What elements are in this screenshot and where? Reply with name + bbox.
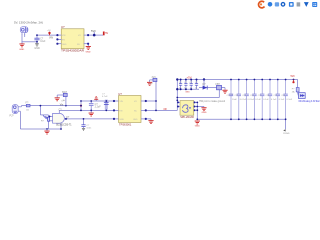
svg-text:VIN: VIN <box>62 35 66 37</box>
svg-text:SI2301CDS-T1: SI2301CDS-T1 <box>56 125 72 127</box>
svg-text:TPS5430DDAR: TPS5430DDAR <box>61 49 84 52</box>
svg-text:GND: GND <box>202 112 207 114</box>
svg-text:5V: 5V <box>105 32 108 35</box>
svg-text:4.7uF: 4.7uF <box>102 96 108 98</box>
svg-text:5V: 5V <box>150 83 153 85</box>
svg-text:FB?: FB? <box>216 83 221 86</box>
svg-text:0.1uF: 0.1uF <box>287 99 293 101</box>
svg-text:5V, 1300-2A (Max. 2A): 5V, 1300-2A (Max. 2A) <box>14 21 43 25</box>
svg-text:C28: C28 <box>281 95 284 97</box>
svg-text:PGND: PGND <box>283 133 290 135</box>
svg-text:C24: C24 <box>250 95 253 97</box>
svg-text:R?: R? <box>41 121 45 123</box>
svg-text:GND: GND <box>34 47 40 50</box>
svg-text:0.01uF: 0.01uF <box>240 99 247 101</box>
svg-text:1A: 1A <box>26 108 29 111</box>
svg-text:0.1uF: 0.1uF <box>263 99 269 101</box>
svg-text:PJ?: PJ? <box>10 115 15 118</box>
svg-text:GND: GND <box>133 119 138 121</box>
svg-text:0.1uF: 0.1uF <box>279 99 285 101</box>
svg-text:0R: 0R <box>164 108 167 111</box>
svg-text:3V3: 3V3 <box>152 77 157 79</box>
svg-text:VIN: VIN <box>49 37 53 40</box>
svg-text:C22: C22 <box>234 95 237 97</box>
svg-text:2.2uF: 2.2uF <box>95 106 102 109</box>
svg-text:2A: 2A <box>292 90 295 93</box>
svg-text:MCU/Analog 3.3V Rail: MCU/Analog 3.3V Rail <box>299 100 320 103</box>
svg-text:TPS63001: TPS63001 <box>119 123 132 127</box>
svg-text:C21: C21 <box>227 95 230 97</box>
svg-text:U?: U? <box>61 25 65 29</box>
svg-text:HW port to make ground: HW port to make ground <box>199 100 226 103</box>
svg-text:10uF: 10uF <box>232 99 238 101</box>
svg-text:C26: C26 <box>266 95 269 97</box>
svg-text:VIN: VIN <box>120 101 124 103</box>
svg-text:+5V: +5V <box>47 30 51 32</box>
svg-text:VO: VO <box>134 101 137 103</box>
svg-text:U?: U? <box>118 92 122 96</box>
svg-text:GND: GND <box>120 119 125 121</box>
svg-text:C?: C? <box>59 108 63 111</box>
svg-text:VO: VO <box>78 35 81 37</box>
svg-text:F?: F? <box>292 89 295 91</box>
svg-text:+5V: +5V <box>187 76 192 80</box>
svg-text:5V0: 5V0 <box>91 29 96 33</box>
svg-text:0.1uF: 0.1uF <box>271 99 277 101</box>
svg-text:10uF: 10uF <box>40 41 46 43</box>
svg-text:GND: GND <box>19 49 24 51</box>
svg-text:SW?: SW? <box>62 91 68 94</box>
svg-text:C27: C27 <box>273 95 276 97</box>
svg-text:0.1uF: 0.1uF <box>255 99 261 101</box>
svg-text:GND: GND <box>195 126 200 128</box>
svg-text:5V0: 5V0 <box>291 76 296 78</box>
svg-text:GND: GND <box>185 92 190 94</box>
svg-text:SPK-2W-8R: SPK-2W-8R <box>180 116 194 119</box>
svg-text:0.01uF: 0.01uF <box>248 99 255 101</box>
svg-text:1k: 1k <box>63 100 66 102</box>
svg-text:1u: 1u <box>195 88 197 90</box>
svg-text:GND: GND <box>86 52 91 54</box>
svg-text:D?: D? <box>203 83 207 86</box>
svg-text:100n: 100n <box>86 128 92 130</box>
svg-text:C25: C25 <box>258 95 261 97</box>
svg-text:C23: C23 <box>242 95 245 97</box>
svg-text:GND: GND <box>62 44 67 46</box>
